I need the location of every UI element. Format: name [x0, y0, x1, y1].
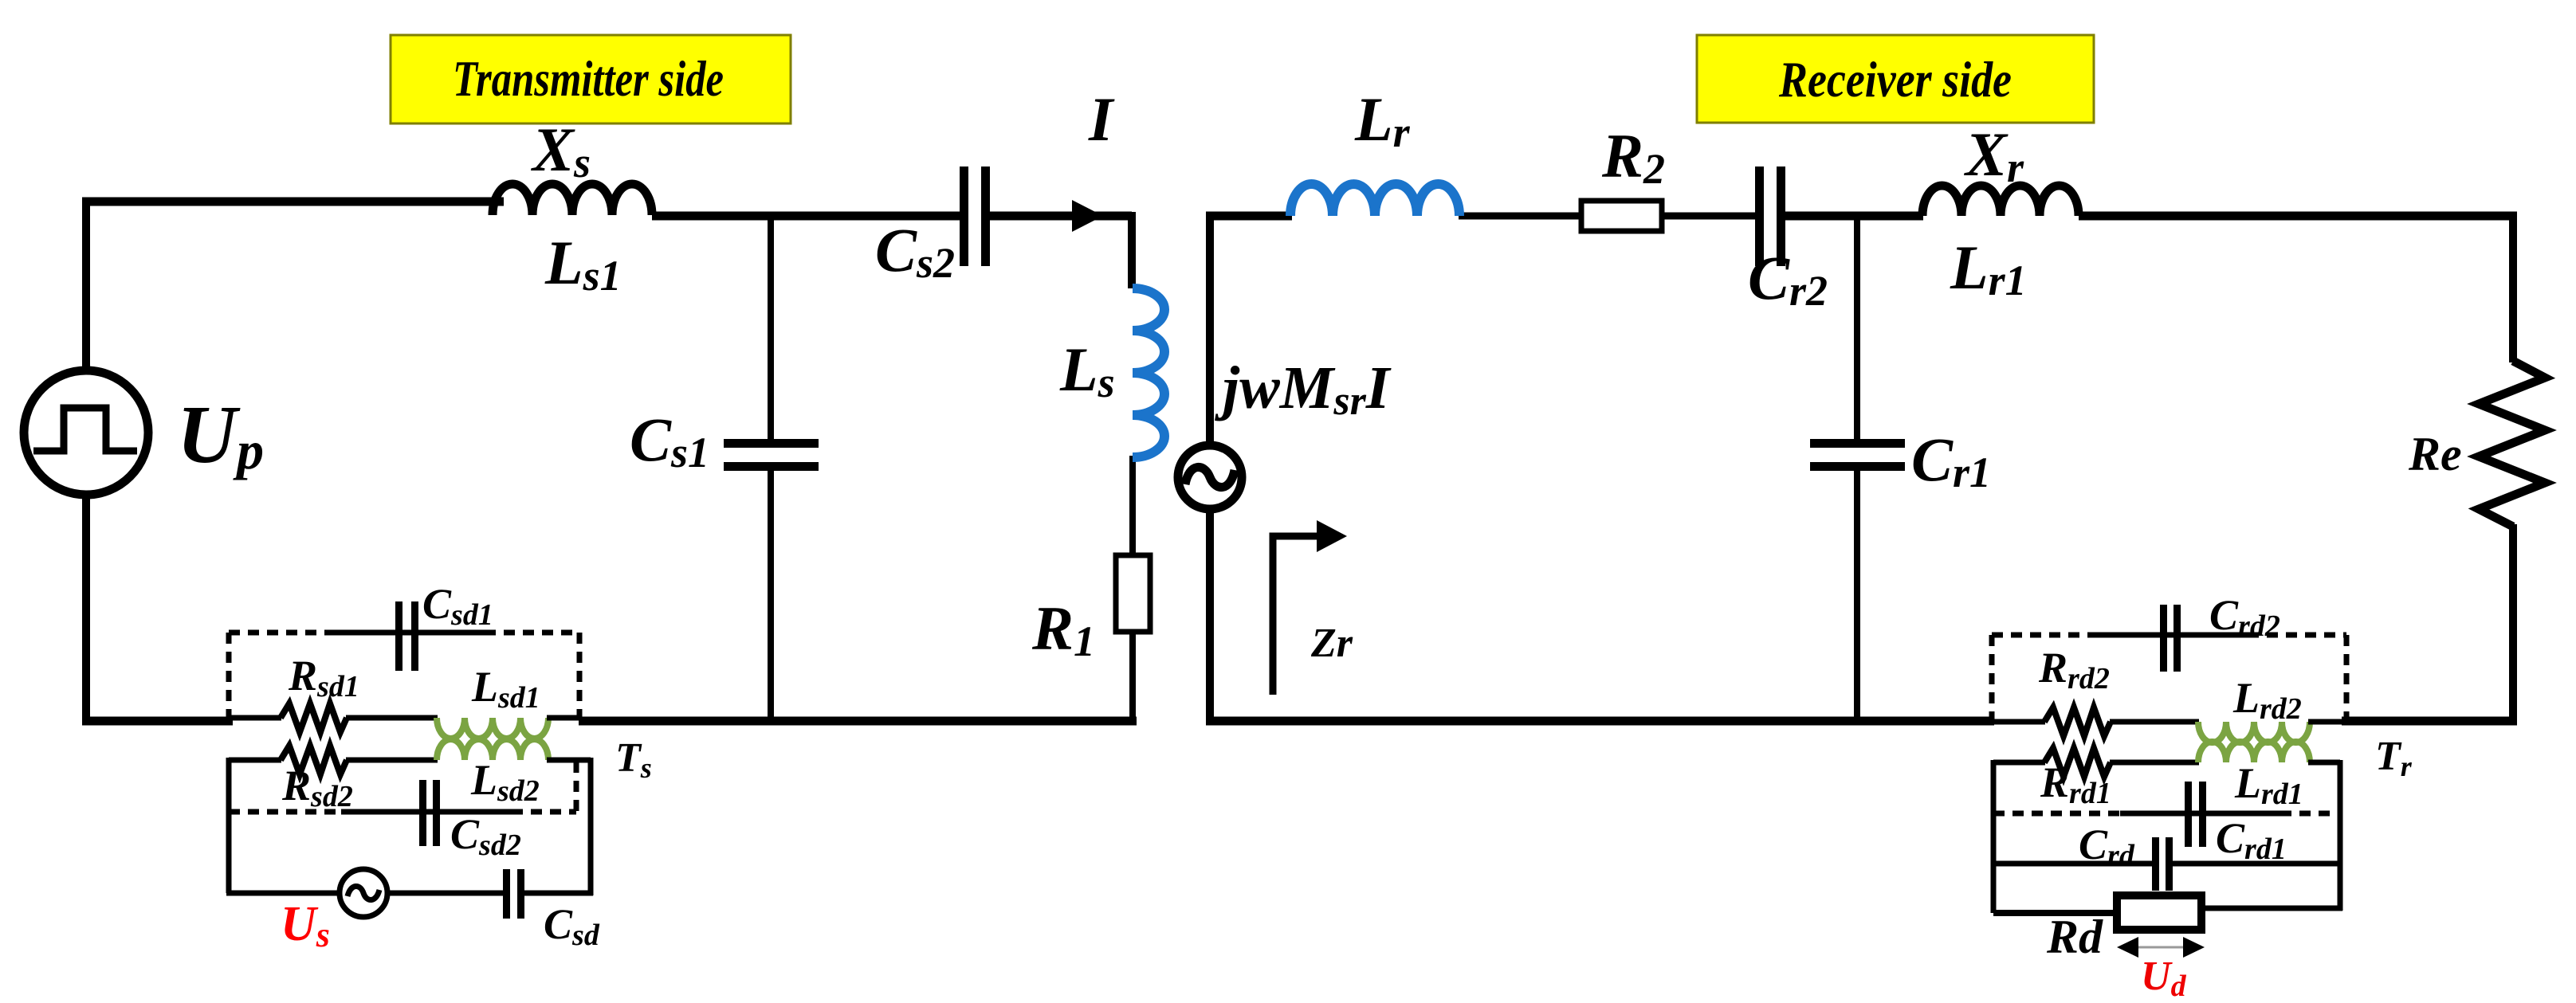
wire inner box left vertical: [1991, 760, 1997, 913]
wire Csd to right corner: [524, 891, 593, 896]
capacitor Csd plate left: [503, 869, 510, 919]
resistor Rd box: [2117, 895, 2201, 930]
wire bottom line left of Rd: [1993, 910, 2119, 916]
dashed box bottom line (Csd2 path): [229, 809, 344, 815]
resistor Rrd1 zigzag: [2044, 748, 2111, 777]
capacitor Crd plate right: [2166, 837, 2173, 891]
wire Lsd2 to right corner: [547, 758, 591, 763]
source Us circle: [340, 869, 387, 917]
capacitor Cr2 plate right: [1777, 167, 1785, 266]
capacitor Cr2 plate left: [1755, 167, 1764, 266]
svg-text:I: I: [1088, 84, 1115, 154]
wire bottom line right of Rd: [2201, 906, 2342, 911]
wire Lsd1 to bus: [547, 715, 582, 721]
svg-text:Rd: Rd: [2046, 911, 2103, 963]
wire top corner to Lr coil: [1206, 212, 1292, 221]
RX-WIRES: [1206, 212, 2517, 725]
wire right rail lower: [2509, 524, 2517, 725]
wire Cs2 to corner with arrow: [988, 212, 1132, 221]
wire Us to Csd: [387, 891, 505, 896]
inductor Ls coil (blue): [1133, 288, 1164, 457]
capacitor Cr1 plate top: [1810, 439, 1905, 448]
wire left rail upper: [82, 198, 90, 373]
wire R2 to Cr2: [1661, 213, 1757, 220]
wire after Xs coil to Cs2: [652, 212, 962, 221]
resistor Rsd1 zigzag: [281, 703, 347, 732]
wire bottom bus left segment: [1206, 717, 1994, 726]
wire bus thin left of Rsd1: [231, 715, 281, 721]
wire bottom bus right segment: [2342, 717, 2517, 726]
capacitor Cs1 plate bottom: [724, 462, 819, 471]
resistor Rsd2 zigzag: [281, 746, 347, 774]
svg-text:Receiver side: Receiver side: [1778, 51, 2012, 108]
inductor Lrd2 coil (green, arcs below): [2198, 722, 2310, 742]
wire Cr1 branch upper: [1854, 216, 1860, 441]
svg-text:Re: Re: [2408, 428, 2462, 480]
wire corner down to Ls coil: [1128, 212, 1136, 288]
wire Xr coil to top right corner: [2079, 212, 2517, 221]
resistor R2: [1581, 201, 1662, 231]
wire loop left vertical: [226, 758, 232, 893]
wire loop right vertical: [588, 758, 594, 895]
wire jwM source bottom vertical: [1206, 510, 1214, 725]
capacitor Csd plate right: [517, 869, 524, 919]
wire Rrd2 to Lrd2: [2110, 719, 2199, 725]
capacitor Csd1 plate left: [395, 601, 402, 671]
svg-text:Transmitter side: Transmitter side: [453, 50, 724, 107]
wire loop bottom left: [226, 891, 338, 896]
wire Lrd2 to bus: [2308, 719, 2344, 725]
dashed bottom line (Crd1 path): [1993, 811, 2123, 817]
wire bottom bus right segment: [579, 717, 1137, 726]
wire branch2 left: [1993, 760, 2045, 766]
pulse source Up waveform: [33, 408, 137, 451]
RX-LABELS: [1215, 84, 2462, 1003]
wire bottom bus left segment: [82, 717, 233, 726]
TX-WIRES: [82, 198, 1137, 725]
wire bus thin left of Rrd2: [1994, 719, 2045, 725]
svg-text:Zr: Zr: [1310, 621, 1353, 666]
resistor R1: [1116, 555, 1150, 632]
capacitor Cr1 plate bottom: [1810, 462, 1905, 471]
source jwMsrI circle: [1178, 445, 1242, 509]
dashed box left vertical: [1989, 635, 1995, 719]
inductor Lrd1 coil (green, arcs above): [2198, 742, 2310, 762]
label box Transmitter side: [391, 35, 791, 123]
wire Cr1 branch lower: [1854, 470, 1860, 721]
wire right rail upper: [2509, 212, 2517, 362]
wire Cs1 branch upper: [768, 216, 774, 441]
wire Cs1 branch lower: [768, 470, 774, 721]
dashed box left vertical: [226, 633, 232, 717]
TX-NETWORK: [24, 167, 1164, 919]
capacitor Crd2 plate left: [2160, 605, 2167, 672]
wire Rrd1 to Lrd1: [2110, 760, 2199, 766]
capacitor Csd2 plate right: [433, 780, 440, 846]
pulse source Up circle: [24, 370, 148, 495]
arrow Zr impedance looking: [1273, 536, 1325, 695]
wire branch2 left: [229, 758, 281, 763]
dashed box right vertical: [2344, 635, 2350, 719]
capacitor Crd plate left: [2152, 837, 2159, 891]
resistor Re zigzag: [2479, 361, 2545, 527]
capacitor Cs2 plate right: [981, 167, 990, 266]
wire left rail lower: [82, 496, 90, 725]
wire Rsd2 to Lsd2: [346, 758, 438, 763]
arrow Ud double-headed: [2130, 946, 2192, 949]
capacitor Cs1 plate top: [724, 439, 819, 448]
TX-LABELS: [177, 84, 1115, 954]
RX-NETWORK: [1178, 167, 2545, 958]
dashed box right vertical lower: [574, 762, 579, 812]
wire Lr coil to R2: [1459, 213, 1582, 220]
yellow box: [1697, 35, 2094, 123]
inductor Lsd2 coil (green, arcs above): [437, 739, 548, 760]
inductor Xs coil: [493, 184, 652, 215]
wire Ls coil to R1: [1129, 456, 1136, 558]
source jwMsrI sine: [1185, 467, 1235, 487]
resistor Rrd2 zigzag: [2044, 707, 2111, 736]
wire R1 to bottom bus: [1129, 629, 1136, 725]
yellow box: [391, 35, 791, 123]
capacitor Csd1 plate right: [411, 601, 418, 671]
wire Rsd1 to Lsd1: [346, 715, 438, 721]
node current arrow I: [1072, 200, 1103, 232]
capacitor Crd2 plate right: [2173, 605, 2181, 672]
source Us sine: [348, 886, 379, 899]
dashed box top line (Csd1 path): [229, 630, 328, 636]
dashed box right vertical upper: [577, 633, 583, 717]
wire Lrd1 to right corner: [2308, 760, 2340, 766]
dashed box top line (Crd2 path): [1992, 633, 2091, 638]
wire inner box right vertical: [2338, 760, 2343, 911]
wire Cr2 to Xr coil with node junction: [1784, 212, 1923, 221]
capacitor Csd2 plate left: [419, 780, 426, 846]
inductor Xr coil: [1922, 186, 2079, 216]
wire top left horizontal: [82, 198, 504, 206]
label box Receiver side: [1697, 35, 2094, 123]
capacitor Crd1 plate left: [2185, 782, 2192, 847]
capacitor Cs2 plate left: [960, 167, 968, 266]
inductor Lr coil (blue): [1290, 184, 1459, 216]
wire jwM source top vertical: [1206, 212, 1214, 446]
wire Crd line: [1993, 861, 2154, 867]
inductor Lsd1 coil (green, arcs below): [437, 718, 548, 739]
capacitor Crd1 plate right: [2199, 782, 2206, 847]
